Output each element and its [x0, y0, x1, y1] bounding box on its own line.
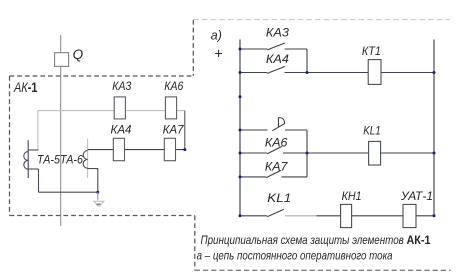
- wire: rung2 branch flag contact: [240, 129, 307, 131]
- wire: faint link horizontal (coil top row bus): [38, 110, 185, 112]
- wire: YAT-1 to right bus: [416, 215, 434, 217]
- svg-text:КА7: КА7: [265, 159, 288, 173]
- svg-text:КА3: КА3: [266, 25, 289, 39]
- contact KL1: [267, 209, 284, 216]
- svg-text:УАТ-1: УАТ-1: [400, 189, 433, 203]
- relay coil KA7: [164, 138, 175, 160]
- svg-text:а – цепь постоянного оперативн: а – цепь постоянного оперативного тока: [197, 249, 393, 263]
- contact KA7: [266, 170, 281, 178]
- svg-text:АК-1: АК-1: [13, 79, 37, 95]
- wire: rung1 branch KA3: [240, 48, 307, 50]
- relay coil KL1: [369, 141, 381, 165]
- wire: KH1 to YAT-1: [352, 215, 403, 217]
- wire: TA5 down to ground bus: [38, 169, 40, 192]
- current transformer TA5 secondary winding: [24, 152, 28, 170]
- node on positive bus: [239, 95, 242, 98]
- contact KA4: [267, 67, 285, 74]
- svg-text:+: +: [214, 46, 222, 62]
- wire: rung1 branch KA4: [240, 72, 307, 74]
- trip coil YAT-1: [403, 204, 416, 227]
- node bus negative (right bus): [433, 40, 435, 216]
- current transformer TA5 primary: [27, 140, 29, 178]
- wire: ground bus horizontal: [39, 191, 98, 193]
- wire: link down right side: [184, 111, 186, 150]
- wire: TA6 bottom to ground node: [88, 169, 98, 193]
- indicator relay KH1: [341, 204, 352, 227]
- junction nodes rung2: [239, 129, 242, 132]
- junction nodes rung3: [239, 214, 242, 217]
- svg-text:КА4: КА4: [266, 52, 289, 66]
- svg-text:КН1: КН1: [342, 189, 362, 203]
- junction nodes rung1: [239, 48, 242, 51]
- wire: relay rung (CT secondary circuit): [88, 149, 185, 151]
- svg-text:ТА-5ТА-6: ТА-5ТА-6: [37, 152, 83, 166]
- wire: TA5 bottom bridge: [28, 168, 38, 170]
- svg-text:КА3: КА3: [112, 79, 131, 93]
- wire: rung1 to coil KT1: [307, 72, 434, 74]
- contact with flag (KA6 latching): [272, 123, 285, 130]
- junction ground node: [96, 191, 99, 194]
- contact KA6: [267, 146, 282, 154]
- wire: rung3 lead: [240, 215, 267, 217]
- svg-text:КА6: КА6: [265, 136, 288, 150]
- ground stub: [97, 192, 99, 200]
- dashed enclosure AK-1 (left block border): [10, 76, 195, 216]
- wire: rung2 parallel join: [306, 130, 308, 177]
- node bus positive (left bus): [239, 40, 241, 216]
- contact KA3: [267, 43, 285, 50]
- circuit breaker Q: [55, 53, 69, 67]
- junction node (rung to link): [183, 148, 186, 151]
- wire: faint link vertical left: [37, 111, 39, 150]
- wire: rung2 to coil KL1: [307, 152, 434, 154]
- dashed enclosure a) (right block border): [193, 20, 450, 271]
- svg-text:КА4: КА4: [111, 123, 132, 137]
- wire: rung1 parallel join: [306, 49, 308, 73]
- relay coil KA4: [113, 138, 124, 160]
- svg-text:KL1: KL1: [363, 124, 381, 138]
- svg-text:КТ1: КТ1: [362, 44, 381, 58]
- svg-text:KL1: KL1: [267, 191, 291, 205]
- svg-text:КА7: КА7: [163, 123, 184, 137]
- svg-text:КА6: КА6: [164, 79, 183, 93]
- wire: rung3 light segment: [285, 215, 317, 217]
- svg-text:а): а): [211, 29, 222, 43]
- wire: feeder main vertical: [60, 35, 62, 226]
- wire: rung3 to KH1: [317, 215, 341, 217]
- wire: TA5 top bridge: [28, 149, 38, 151]
- svg-text:Принципиальная схема защиты эл: Принципиальная схема защиты элементов АК…: [201, 233, 431, 247]
- wire: rung2 branch KA7: [240, 176, 307, 178]
- relay coil KT1: [368, 60, 381, 85]
- ground symbol: [94, 201, 104, 206]
- svg-text:Q: Q: [73, 47, 84, 62]
- current transformer TA6 primary (faint): [87, 139, 89, 178]
- wire: rung2 branch KA6: [240, 152, 307, 154]
- current transformer TA6 secondary winding: [83, 151, 87, 169]
- relay coil KA6: [165, 97, 176, 119]
- relay coil KA3: [114, 97, 125, 119]
